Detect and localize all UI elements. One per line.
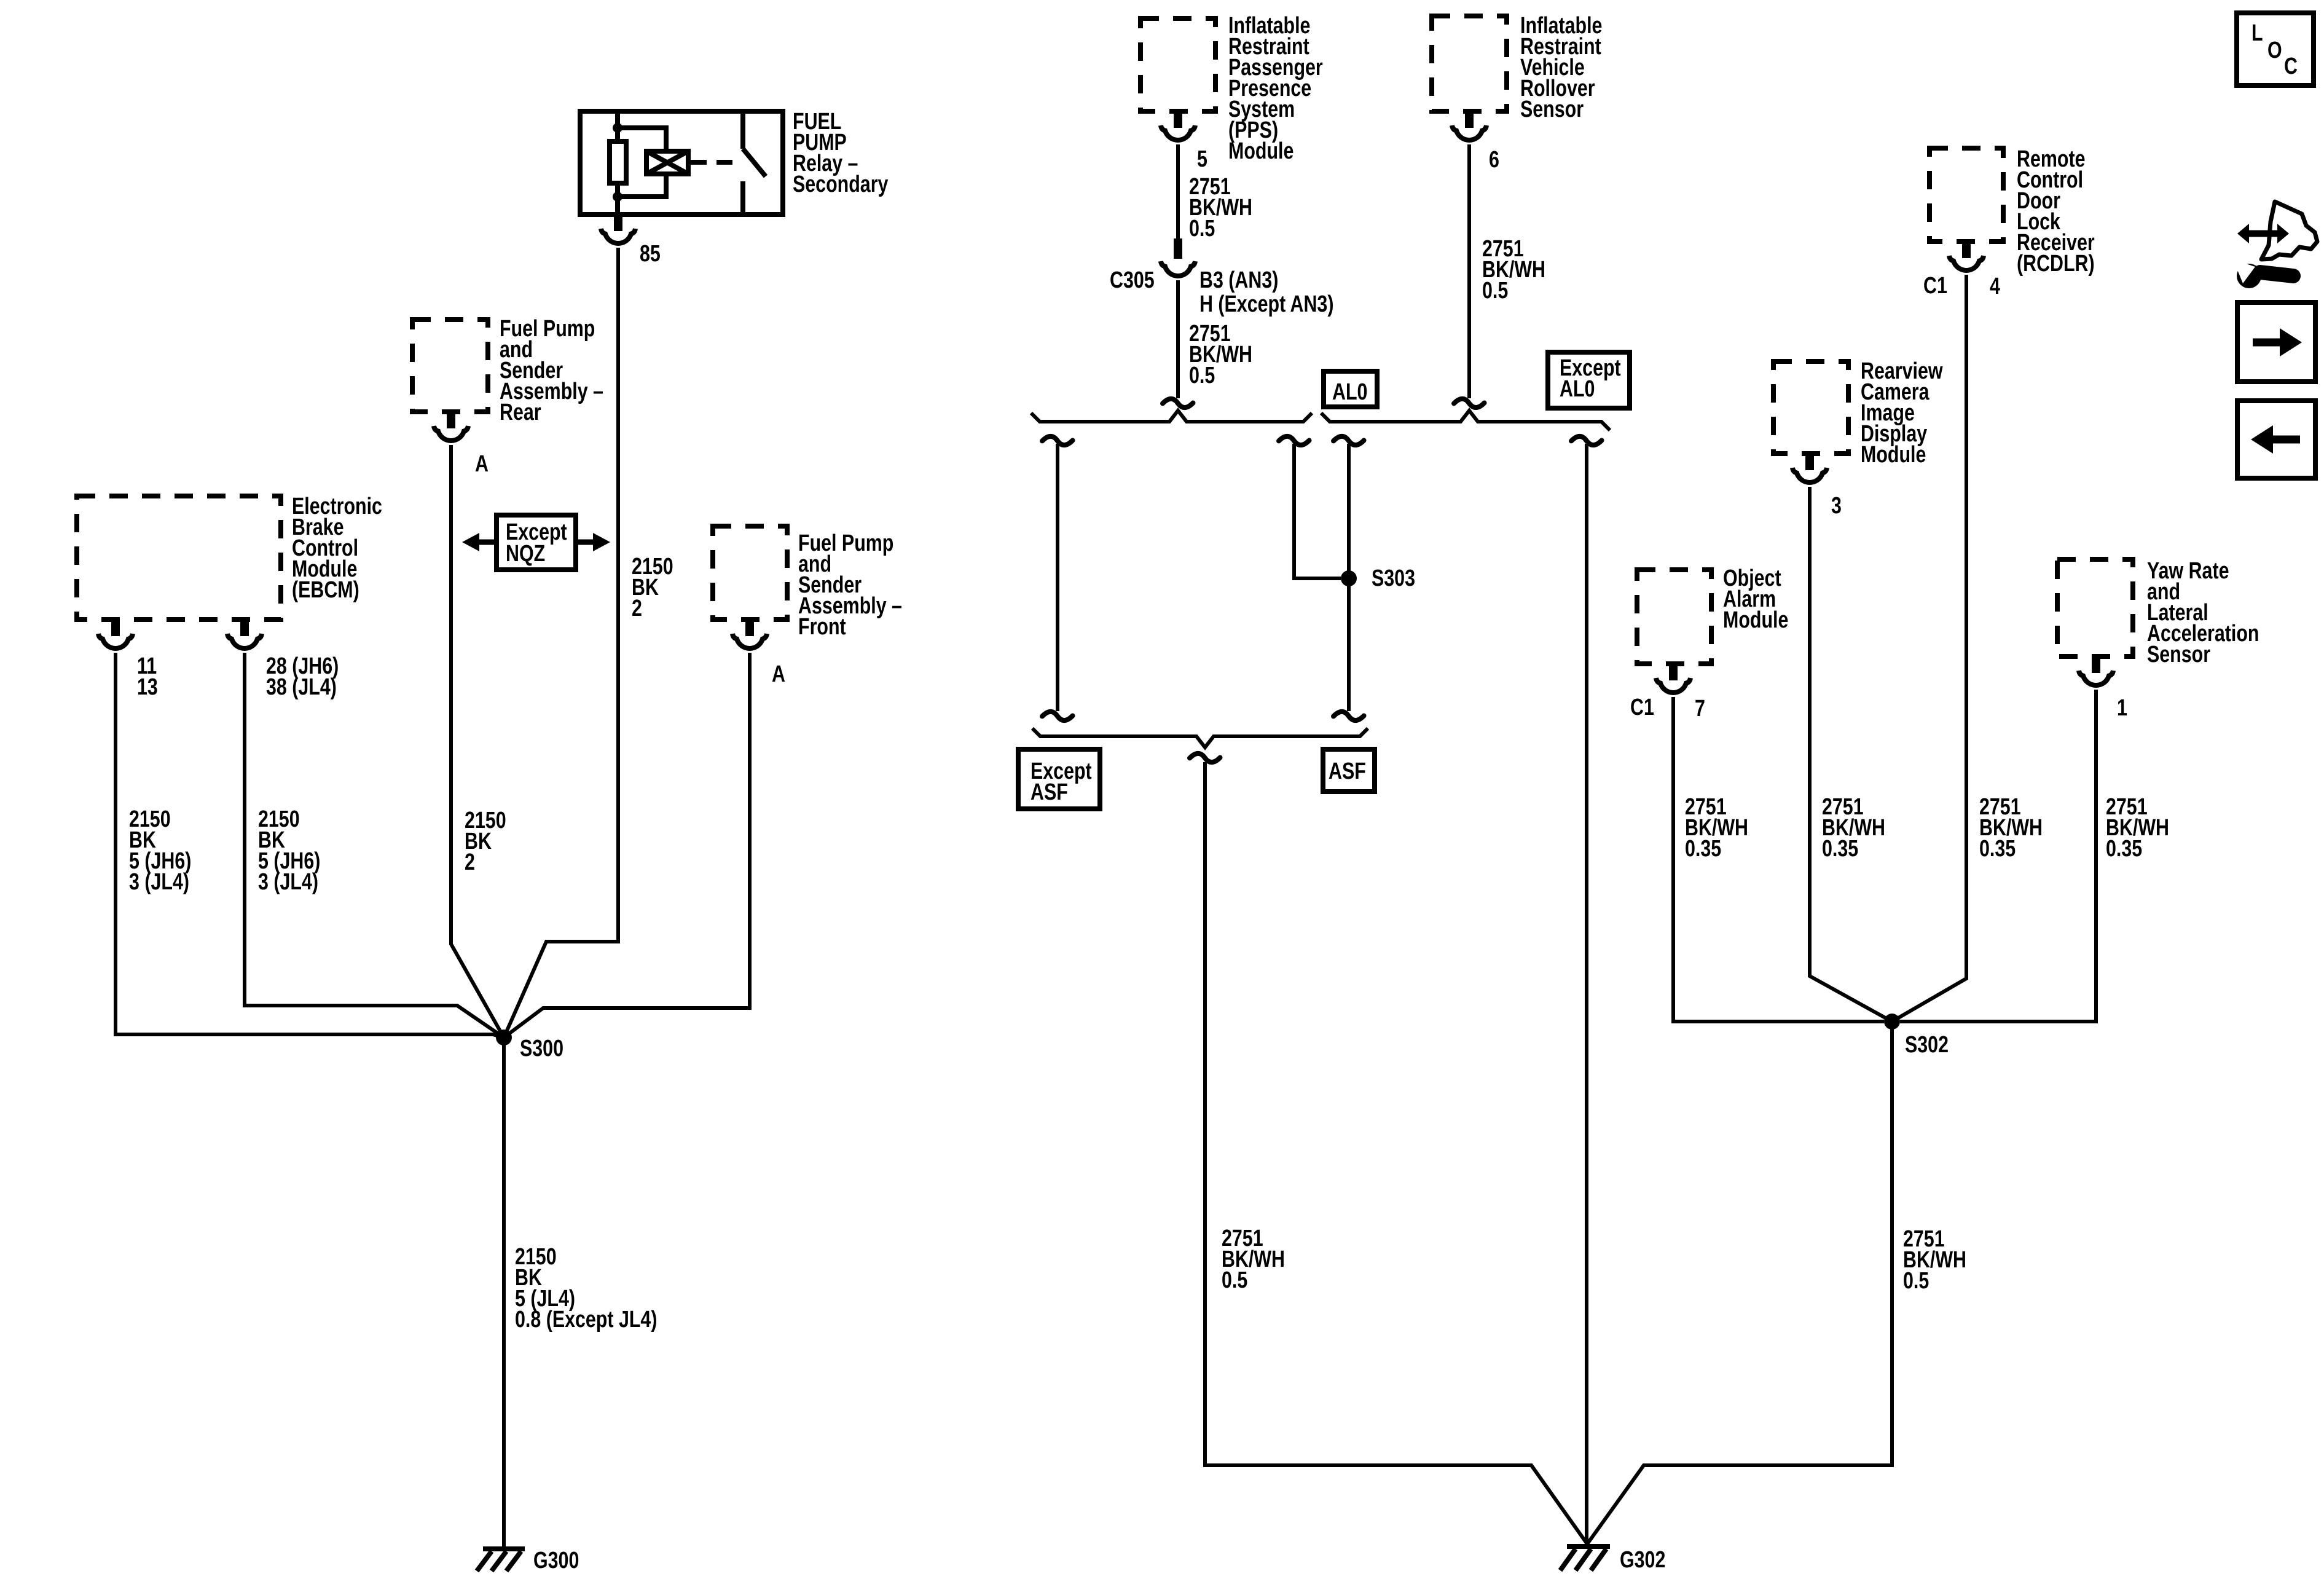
wire: PPS pin 5 to C305 <box>1176 144 1180 238</box>
svg-text:S302: S302 <box>1905 1032 1949 1058</box>
svg-text:O: O <box>2267 37 2282 63</box>
splice S300 <box>496 1030 512 1045</box>
wire: rearview down to S302 <box>1810 487 1892 1022</box>
wire: EBCM pin 11/13 down to S300 <box>116 653 504 1038</box>
junction dot relay top <box>613 123 622 133</box>
connector pin 11/13 (EBCM left) <box>98 620 133 648</box>
option box Except NQZ with arrows <box>497 515 576 570</box>
svg-text:A: A <box>475 451 489 477</box>
wire: yaw sensor down to S302 <box>1900 690 2096 1022</box>
option bracket bottom (ASF merge) <box>1032 728 1368 747</box>
wire: S300 down to G300 <box>502 1038 506 1549</box>
svg-text:S303: S303 <box>1372 565 1415 591</box>
wire: front pump down to S300 <box>504 653 750 1038</box>
wire: Except AL0 branch down to G302 <box>1585 444 1588 1544</box>
svg-text:5: 5 <box>1197 146 1207 172</box>
Rearview Camera Image Display Module dashed box <box>1773 361 1848 454</box>
svg-text:C305: C305 <box>1110 267 1155 293</box>
squiggle branch top left <box>1042 434 1072 447</box>
wire: RCDLR down to S302 <box>1892 275 1966 1022</box>
option bracket top-left (PPS feed) <box>1031 411 1312 422</box>
Remote Control Door Lock Receiver (RCDLR) dashed box <box>1929 148 2003 242</box>
svg-text:G300: G300 <box>533 1548 579 1573</box>
svg-text:AL0: AL0 <box>1332 379 1367 405</box>
junction dot relay bottom <box>613 192 622 202</box>
svg-text:S300: S300 <box>520 1036 563 1061</box>
svg-text:1113: 1113 <box>137 653 158 700</box>
svg-text:28 (JH6)38 (JL4): 28 (JH6)38 (JL4) <box>266 653 339 700</box>
svg-text:6: 6 <box>1489 147 1499 173</box>
squiggle wire-to-bracket (PPS) <box>1163 396 1193 410</box>
connector pin C1 7 (object alarm) <box>1656 664 1690 693</box>
wire: object alarm down to S302 <box>1673 697 1884 1022</box>
relay actuator dashed link <box>691 160 740 165</box>
svg-text:C1: C1 <box>1923 273 1947 299</box>
Fuel Pump and Sender Assembly - Front dashed box <box>713 526 787 620</box>
wire: relay pin 85 down to S300 <box>504 248 618 1038</box>
svg-text:1: 1 <box>2117 695 2127 721</box>
icon: adjust (double arrow, pointer outline, wrench) <box>2233 202 2317 288</box>
svg-text:C: C <box>2284 53 2298 79</box>
Electronic Brake Control Module (EBCM) dashed box <box>77 496 281 620</box>
relay switch contacts <box>743 111 766 215</box>
svg-text:C1: C1 <box>1630 695 1654 720</box>
wire: S302 down to G302 <box>1587 1022 1892 1544</box>
Inflatable Restraint Passenger Presence System (PPS) Module dashed box <box>1140 18 1215 111</box>
option box ASF <box>1323 749 1375 792</box>
relay K: FUEL PUMP Relay - Secondary box <box>580 111 783 215</box>
connector pin A (front pump) <box>732 620 767 648</box>
squiggle below bottom bracket <box>1190 751 1220 765</box>
squiggle branch top right <box>1333 434 1364 447</box>
squiggle branch bottom right <box>1333 709 1364 723</box>
wire: rollover pin 6 down <box>1467 144 1471 398</box>
branch wire middle to S303 <box>1294 444 1341 578</box>
arrow left (Except NQZ) <box>479 540 497 545</box>
svg-text:G302: G302 <box>1620 1547 1665 1573</box>
connector pin 6 (rollover) <box>1452 111 1486 140</box>
Yaw Rate and Lateral Acceleration Sensor dashed box <box>2057 559 2133 656</box>
squiggle branch bottom left <box>1042 709 1072 723</box>
resistor R (relay internal) <box>610 141 626 183</box>
splice S302 <box>1884 1014 1900 1030</box>
svg-text:ASF: ASF <box>1329 758 1366 784</box>
squiggle branch top far-right (Except AL0) <box>1571 434 1601 447</box>
svg-text:7: 7 <box>1695 696 1705 722</box>
connector pin 28/38 (EBCM right) <box>227 620 262 648</box>
option box Except ASF <box>1018 749 1100 809</box>
wire: bottom bracket down to G302 <box>1205 762 1587 1544</box>
squiggle wire-to-bracket (rollover) <box>1454 396 1484 410</box>
option box Except AL0 <box>1548 352 1630 408</box>
connector pin 5 (PPS) <box>1161 111 1195 140</box>
LOC legend box <box>2237 13 2314 85</box>
svg-text:A: A <box>772 661 785 687</box>
connector pin 85 (relay) <box>601 215 635 243</box>
connector pin C1 4 (RCDLR) <box>1949 242 1984 270</box>
connector pin A (rear pump) <box>434 412 468 441</box>
svg-text:3: 3 <box>1831 493 1842 519</box>
svg-text:4: 4 <box>1990 274 2000 299</box>
Object Alarm Module dashed box <box>1637 570 1711 664</box>
wire: rear pump down to S300 <box>451 445 504 1038</box>
connector pin 1 (yaw sensor) <box>2079 656 2113 685</box>
arrow right (Except NQZ) <box>576 540 594 545</box>
wire: EBCM pin 28/38 down to S300 <box>245 653 504 1038</box>
relay coil (box with X) <box>646 151 688 174</box>
squiggle branch top middle <box>1279 434 1309 447</box>
svg-text:85: 85 <box>640 241 661 267</box>
ground G300 <box>477 1549 525 1571</box>
branch wire left (Except ASF side) <box>1056 444 1059 711</box>
option box AL0 <box>1324 371 1377 407</box>
splice S303 <box>1341 570 1357 586</box>
Inflatable Restraint Vehicle Rollover Sensor dashed box <box>1432 16 1507 111</box>
wire: C305 down to option bracket <box>1176 280 1180 398</box>
svg-text:L: L <box>2251 20 2263 46</box>
relay coil branch wire <box>618 111 666 215</box>
icon: arrow left box <box>2237 401 2315 478</box>
branch wire right through S303 <box>1347 444 1351 711</box>
option bracket top-right (rollover feed) <box>1321 411 1610 430</box>
icon: arrow right box <box>2237 302 2315 382</box>
connector pin 3 (rearview) <box>1792 454 1827 482</box>
ground G302 <box>1560 1546 1610 1570</box>
Fuel Pump and Sender Assembly - Rear dashed box <box>412 320 488 412</box>
in-line connector C305 <box>1174 238 1182 259</box>
